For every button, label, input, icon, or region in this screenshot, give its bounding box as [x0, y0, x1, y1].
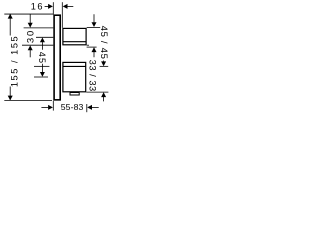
- svg-text:155 / 155: 155 / 155: [9, 35, 19, 87]
- svg-text:55-83: 55-83: [61, 102, 84, 112]
- svg-text:16: 16: [31, 1, 44, 11]
- svg-text:30: 30: [25, 29, 36, 43]
- svg-text:45 / 45: 45 / 45: [98, 26, 109, 60]
- svg-text:33 / 33: 33 / 33: [87, 60, 98, 92]
- svg-text:45: 45: [37, 52, 47, 64]
